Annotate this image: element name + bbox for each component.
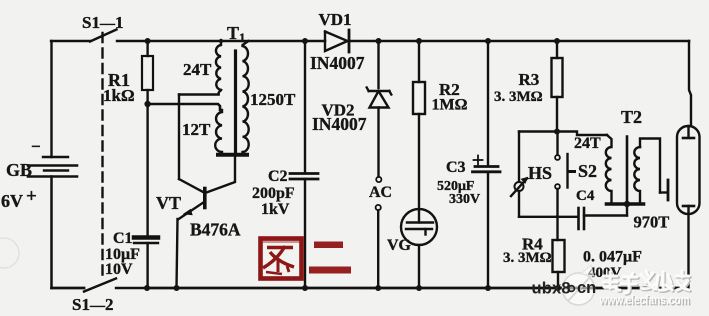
transformer T1 winding 12T	[215, 110, 222, 155]
resistor R1	[142, 41, 153, 104]
svg-text:S1—2: S1—2	[72, 295, 113, 314]
svg-text:cn: cn	[577, 279, 596, 297]
capacitor C3	[473, 41, 501, 288]
wire top rail middle	[147, 40, 325, 43]
svg-text:12T: 12T	[182, 120, 211, 139]
capacitor C1	[134, 104, 158, 288]
svg-text:R3: R3	[519, 70, 540, 89]
watermark magnifier logo	[563, 265, 595, 305]
transistor VT	[177, 155, 236, 288]
battery GB	[28, 157, 77, 177]
svg-text:1kΩ: 1kΩ	[103, 86, 135, 105]
svg-text:C1: C1	[113, 230, 133, 247]
resistor R2	[413, 41, 425, 209]
transformer T2 winding 24T	[606, 135, 612, 204]
svg-text:HS: HS	[528, 163, 552, 183]
node T1 bottom junction	[218, 153, 247, 157]
capacitor C4	[557, 204, 628, 229]
watermark left edge circle	[0, 238, 19, 268]
svg-text:GB: GB	[6, 160, 32, 180]
wire right rail top	[689, 41, 691, 126]
svg-text:6V: 6V	[1, 191, 23, 211]
diode VD2 zener	[367, 41, 392, 177]
svg-text:200pF: 200pF	[252, 185, 295, 202]
wire bottom rail left	[52, 287, 85, 290]
resistor R4	[553, 217, 565, 288]
svg-text:ubx8: ubx8	[532, 280, 571, 298]
stamp figure 2	[261, 239, 302, 279]
resistor R3	[552, 41, 563, 132]
wire R1 to 12T	[148, 104, 220, 110]
svg-text:C2: C2	[268, 168, 288, 185]
svg-text:0. 047μF: 0. 047μF	[583, 249, 642, 266]
wire top rail right	[349, 40, 689, 43]
transformer T2 core	[626, 137, 629, 205]
transformer T1 core	[234, 51, 237, 154]
watermark www.elecfans.com	[599, 292, 691, 309]
svg-text:970T: 970T	[634, 213, 670, 232]
discharge tube lamp	[677, 126, 700, 288]
svg-text:3. 3MΩ: 3. 3MΩ	[503, 250, 552, 266]
wire top rail left	[51, 40, 90, 42]
svg-text:1kV: 1kV	[261, 201, 290, 218]
switch S1-2	[84, 279, 147, 292]
wire HS loop bottom	[519, 216, 557, 218]
terminal AC top	[376, 177, 381, 182]
discharge tube VG	[401, 209, 437, 288]
svg-text:330V: 330V	[449, 192, 480, 207]
svg-text:VD1: VD1	[319, 10, 352, 29]
wire left rail lower	[50, 177, 53, 289]
svg-text:T2: T2	[621, 107, 642, 127]
svg-text:C4: C4	[576, 188, 595, 204]
wire AC to bottom rail	[377, 211, 379, 289]
svg-text:24T: 24T	[183, 60, 212, 79]
svg-text:S2: S2	[578, 161, 597, 181]
capacitor C2	[290, 41, 318, 288]
svg-text:S1—1: S1—1	[82, 13, 123, 32]
svg-text:VT: VT	[156, 193, 181, 213]
terminal AC bottom	[376, 205, 381, 210]
transformer T1 winding 1250T	[243, 41, 249, 155]
svg-text:AC: AC	[369, 184, 392, 201]
svg-text:24T: 24T	[574, 135, 601, 152]
switch gang dashed link	[101, 33, 103, 281]
svg-text:www.elecfans.com: www.elecfans.com	[599, 292, 690, 307]
svg-text:+: +	[26, 186, 37, 207]
wire bottom rail	[147, 287, 688, 290]
svg-text:−: −	[31, 137, 41, 156]
spark gap HS	[511, 132, 528, 217]
svg-text:IN4007: IN4007	[312, 114, 367, 134]
electrode to tube	[660, 180, 668, 200]
svg-text:1MΩ: 1MΩ	[432, 97, 468, 114]
svg-text:1250T: 1250T	[250, 90, 296, 109]
wire left rail	[50, 41, 52, 157]
node T2 bottom junction	[607, 202, 644, 206]
watermark elecfans chinese	[604, 271, 690, 294]
switch S1-1	[90, 30, 147, 42]
svg-text:C3: C3	[446, 159, 466, 176]
svg-text:B476A: B476A	[190, 220, 241, 240]
svg-text:10V: 10V	[105, 261, 133, 278]
diode VD1	[325, 30, 349, 52]
svg-text:VG: VG	[387, 237, 412, 254]
svg-text:3. 3MΩ: 3. 3MΩ	[494, 89, 543, 105]
switch S2	[555, 132, 574, 217]
svg-text:IN4007: IN4007	[310, 53, 365, 73]
wire base branch	[178, 95, 180, 180]
wire HS loop top	[519, 132, 607, 136]
watermark ubx8.cn	[532, 279, 597, 298]
transformer T2 winding 970T	[634, 139, 660, 205]
transformer T1 winding 24T	[179, 41, 221, 95]
